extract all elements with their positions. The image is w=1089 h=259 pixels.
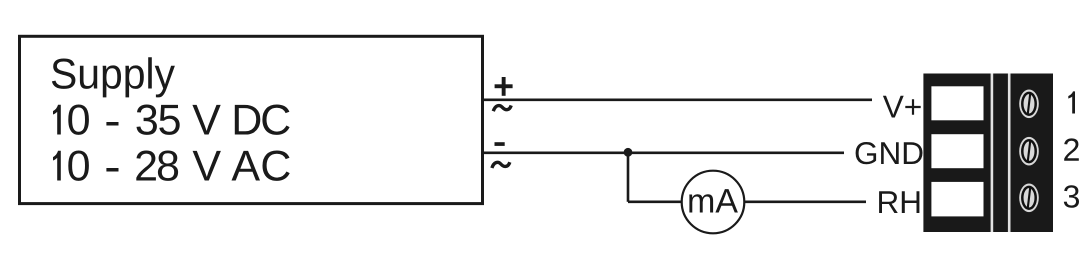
- pin number 2: [1064, 138, 1079, 160]
- wire (vertical drop from junction): [627, 153, 630, 202]
- junction node on GND wire: [624, 148, 633, 157]
- polarity label - (minus terminal): [495, 142, 505, 146]
- power supply PS1 box: [20, 36, 483, 203]
- separator line (right): [1008, 74, 1011, 233]
- pin number 3: [1064, 185, 1079, 208]
- net label GND: [856, 142, 923, 164]
- terminal block J1 body: [923, 74, 1053, 233]
- pin number 1: [1068, 91, 1075, 113]
- net label V+: [883, 96, 921, 118]
- terminal hole 1: [931, 86, 983, 120]
- wire (junction to ammeter): [628, 201, 682, 204]
- value label 10 - 35 V DC: [53, 105, 290, 135]
- wire GND (bottom supply wire): [484, 152, 844, 155]
- polarity label + (plus terminal): [495, 77, 513, 96]
- screw terminal 3: [1019, 184, 1039, 213]
- value label Supply: [52, 57, 175, 97]
- wire V+ (top supply wire): [484, 99, 872, 102]
- terminal hole 3: [931, 182, 983, 217]
- AC label ~ (top): [493, 105, 511, 111]
- screw terminal 2: [1019, 137, 1039, 166]
- separator line (left): [991, 74, 994, 233]
- terminal hole 2: [931, 134, 983, 168]
- AC label ~ (bottom): [492, 162, 510, 168]
- wire (ammeter to RH terminal): [745, 201, 867, 204]
- screw terminal 1: [1019, 90, 1039, 119]
- value label 10 - 28 V AC: [53, 151, 290, 181]
- net label RH: [879, 191, 919, 213]
- ammeter M1 (mA): [682, 171, 745, 234]
